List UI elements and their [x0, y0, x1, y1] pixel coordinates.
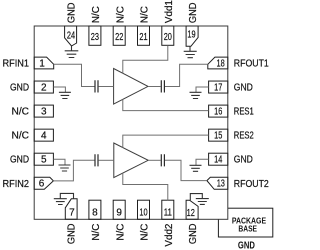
svg-text:N/C: N/C [115, 6, 126, 23]
svg-text:RFOUT1: RFOUT1 [234, 59, 269, 70]
pin 7 box [65, 199, 77, 220]
wire C4 to pin 13 RFOUT2 [165, 160, 207, 180]
svg-text:5: 5 [41, 155, 47, 166]
svg-text:N/C: N/C [91, 6, 102, 23]
wire A1 output to C2 [148, 86, 161, 88]
svg-text:GND: GND [188, 3, 199, 24]
pin 19 label GND [188, 3, 199, 24]
svg-text:N/C: N/C [115, 223, 126, 240]
pin 17 label GND [234, 83, 253, 94]
pin 1 label RFIN1 [3, 59, 30, 70]
svg-text:GND: GND [188, 224, 199, 245]
pin 2 label GND [10, 83, 29, 94]
pin 8 box [89, 200, 101, 219]
pin 13 label RFOUT2 [234, 179, 269, 190]
wire C1 to A1 input [99, 86, 114, 88]
pin 5 box [34, 153, 53, 165]
svg-text:23: 23 [91, 32, 100, 43]
svg-text:N/C: N/C [12, 107, 30, 118]
svg-text:N/C: N/C [140, 6, 151, 23]
svg-text:GND: GND [234, 155, 253, 166]
pin 21 box [138, 26, 150, 45]
pin 3 label N/C [12, 107, 30, 118]
svg-text:12: 12 [187, 208, 196, 219]
pin 1 box [34, 57, 54, 69]
pin 15 label RES2 [234, 131, 254, 142]
svg-text:RFOUT2: RFOUT2 [234, 179, 269, 190]
pin 23 label N/C [91, 6, 102, 23]
svg-text:BASE: BASE [238, 224, 257, 234]
ground symbol at pin 5 [59, 165, 71, 171]
pin 17 box [209, 81, 228, 93]
svg-text:N/C: N/C [91, 223, 102, 240]
ground symbol at pin 2 [59, 92, 71, 98]
svg-text:4: 4 [41, 130, 47, 141]
pin 6 label RFIN2 [3, 179, 30, 190]
pin 23 box [89, 26, 101, 45]
pin 22 label N/C [115, 6, 126, 23]
pin 22 box [113, 26, 125, 45]
svg-text:3: 3 [41, 106, 47, 117]
package base box [218, 208, 272, 237]
svg-text:11: 11 [164, 207, 173, 218]
svg-text:10: 10 [139, 207, 148, 218]
wire RES2 pin 15 to A2 [123, 135, 209, 148]
op-amp A1 (top amplifier) [114, 69, 148, 105]
wire pin 17 to ground [196, 87, 209, 92]
svg-text:22: 22 [115, 32, 124, 43]
pin 19 ground symbol [184, 46, 197, 57]
svg-text:GND: GND [67, 3, 78, 24]
svg-text:15: 15 [214, 130, 223, 141]
wire RES1 A1 to pin 16 [123, 99, 209, 110]
wire C2 to pin 18 RFOUT1 [165, 64, 208, 86]
package base GND label [238, 240, 255, 250]
svg-text:RFIN1: RFIN1 [3, 59, 30, 70]
wire RFIN1 pin 1 to C1 [54, 64, 95, 86]
pin 14 box [209, 153, 228, 165]
wire pin 5 to ground [53, 159, 65, 165]
svg-text:N/C: N/C [12, 131, 30, 142]
svg-text:20: 20 [164, 32, 173, 43]
capacitor C1 (input, amp 1) [95, 80, 98, 92]
svg-text:16: 16 [214, 106, 223, 117]
svg-text:13: 13 [217, 178, 226, 189]
package base label [232, 215, 266, 233]
pin 4 box [34, 129, 53, 141]
pin 4 label N/C [12, 131, 30, 142]
pin 12 ground symbol [190, 194, 209, 205]
wire Vdd2 pin 11 to A2 [123, 173, 168, 200]
pin 3 box [34, 105, 53, 117]
pin 6 box [34, 177, 53, 189]
pin 18 box [208, 57, 228, 69]
pin 16 box [209, 105, 228, 117]
svg-text:Vdd1: Vdd1 [164, 0, 175, 23]
wire RFIN2 pin 6 to C3 [53, 160, 95, 181]
svg-text:GND: GND [238, 240, 255, 250]
capacitor C2 (output, amp 1) [161, 80, 164, 92]
pin 9 label N/C [115, 223, 126, 240]
svg-text:2: 2 [41, 82, 47, 93]
svg-text:18: 18 [217, 58, 226, 69]
pin 21 label N/C [140, 6, 151, 23]
pin 10 label N/C [140, 223, 151, 240]
svg-text:9: 9 [116, 207, 122, 218]
pin 15 box [209, 129, 228, 141]
pin 24 label GND [67, 3, 78, 24]
wire A2 output to C4 [148, 159, 161, 161]
pin 14 label GND [234, 155, 253, 166]
svg-text:19: 19 [187, 30, 196, 41]
pin 11 label Vdd2 [164, 223, 175, 246]
svg-text:RFIN2: RFIN2 [3, 179, 30, 190]
svg-text:17: 17 [214, 82, 223, 93]
pin 20 label Vdd1 [164, 0, 175, 23]
capacitor C4 (output, amp 2) [161, 154, 164, 166]
ground symbol at pin 17 [190, 92, 202, 98]
pin 16 label RES1 [234, 107, 254, 118]
pin 11 box [162, 200, 174, 219]
svg-text:21: 21 [139, 32, 148, 43]
svg-text:Vdd2: Vdd2 [164, 223, 175, 246]
svg-text:8: 8 [92, 207, 98, 218]
wire C3 to A2 input [99, 159, 114, 161]
pin 10 box [138, 200, 150, 219]
pin 12 label GND [188, 224, 199, 245]
pin 7 ground symbol [54, 193, 74, 204]
svg-text:GND: GND [234, 83, 253, 94]
pin 19 box [186, 26, 198, 46]
package outline [34, 26, 228, 219]
pin 24 box [65, 26, 77, 46]
pin 7 label GND [67, 224, 78, 245]
svg-text:RES2: RES2 [234, 131, 254, 142]
pin 9 box [113, 200, 125, 219]
svg-text:1: 1 [39, 58, 45, 69]
op-amp A2 (bottom amplifier) [114, 143, 148, 178]
pin 18 label RFOUT1 [234, 59, 269, 70]
capacitor C3 (input, amp 2) [95, 154, 98, 166]
svg-text:N/C: N/C [140, 223, 151, 240]
ground symbol at pin 14 [190, 165, 202, 171]
svg-text:GND: GND [10, 83, 29, 94]
svg-text:7: 7 [69, 208, 75, 219]
svg-text:6: 6 [39, 179, 45, 190]
svg-text:RES1: RES1 [234, 107, 254, 118]
svg-text:GND: GND [67, 224, 78, 245]
svg-text:GND: GND [10, 155, 29, 166]
wire pin 2 to ground [53, 87, 65, 92]
pin 2 box [34, 81, 53, 93]
pin 8 label N/C [91, 223, 102, 240]
pin 5 label GND [10, 155, 29, 166]
pin 20 box [162, 26, 174, 45]
wire pin 14 to ground [196, 159, 209, 165]
svg-text:14: 14 [214, 155, 223, 166]
svg-text:24: 24 [67, 31, 76, 42]
pin 24 ground symbol [65, 46, 79, 58]
wire Vdd1 pin 20 to A1 [123, 45, 168, 73]
pin 12 box [186, 200, 198, 219]
pin 13 box [207, 177, 228, 189]
